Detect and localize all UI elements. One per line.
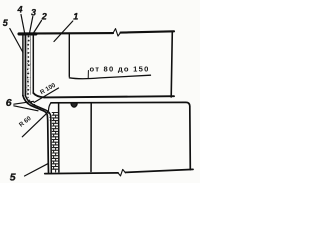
svg-text:3: 3 [31,7,36,17]
svg-text:5: 5 [10,172,16,183]
svg-text:6: 6 [6,97,12,109]
svg-text:2: 2 [41,12,47,22]
svg-text:от 80 до 150: от 80 до 150 [90,65,150,74]
svg-text:5: 5 [3,18,9,28]
svg-text:4: 4 [17,4,23,14]
svg-text:R 60: R 60 [18,115,33,129]
svg-text:1: 1 [73,12,78,22]
